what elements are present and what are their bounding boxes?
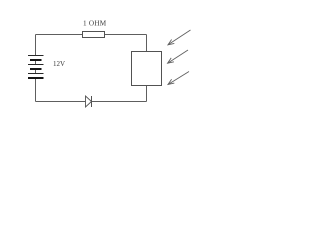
LDR box U1	[132, 52, 162, 86]
svg-text:1 OHM: 1 OHM	[83, 20, 107, 28]
battery B1 12V plates	[28, 56, 44, 79]
wire box bottom vertical	[146, 86, 148, 102]
wire bottom horizontal	[36, 101, 147, 103]
wire top horizontal	[36, 34, 147, 36]
wire battery internal link 1	[35, 61, 37, 65]
light arrow 2	[168, 50, 188, 63]
wire left vertical battery top	[35, 35, 37, 56]
resistor R1 box	[83, 32, 105, 38]
diode D1	[86, 96, 92, 107]
svg-text:12V: 12V	[53, 60, 65, 68]
wire right vertical into box top	[146, 35, 148, 52]
wire battery internal link 2	[35, 70, 37, 74]
light arrow 1	[168, 30, 191, 45]
wire battery bottom to bottom rail	[35, 79, 37, 102]
light arrow 3	[168, 72, 189, 85]
